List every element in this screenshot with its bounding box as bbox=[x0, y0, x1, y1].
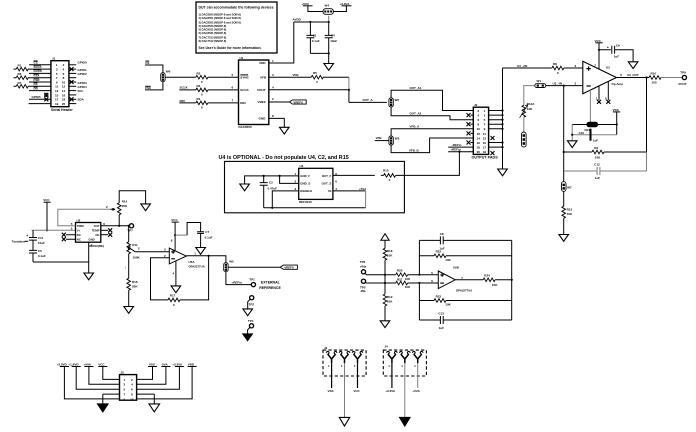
svg-text:R5: R5 bbox=[313, 71, 317, 75]
svg-text:Tantalum: Tantalum bbox=[12, 239, 25, 243]
resistor R23 bbox=[419, 300, 511, 302]
resistor R20 bbox=[396, 273, 408, 277]
svg-text:W3: W3 bbox=[395, 136, 400, 140]
svg-text:R7: R7 bbox=[18, 81, 22, 85]
wire VOUT bbox=[269, 90, 387, 103]
svg-text:1uF: 1uF bbox=[593, 138, 599, 142]
ground bbox=[243, 309, 253, 316]
svg-text:VCC: VCC bbox=[171, 218, 178, 222]
wire GPIO0 pin2 bbox=[69, 64, 76, 66]
wire W6 to R2 bbox=[165, 76, 196, 78]
wire OUT_A2 bbox=[391, 107, 473, 120]
svg-text:SCLK: SCLK bbox=[180, 86, 189, 90]
svg-text:C9: C9 bbox=[616, 44, 620, 48]
svg-text:J1: J1 bbox=[52, 57, 56, 61]
svg-text:0.1uF: 0.1uF bbox=[38, 254, 46, 258]
wire AVDD rail bbox=[294, 21, 329, 23]
svg-text:10K: 10K bbox=[567, 212, 573, 216]
svg-text:VSS: VSS bbox=[149, 362, 155, 366]
test point TP2 bbox=[250, 296, 254, 300]
svg-text:OUT_A2: OUT_A2 bbox=[410, 112, 422, 116]
svg-text:+INa: +INa bbox=[360, 264, 367, 268]
svg-text:R15: R15 bbox=[383, 169, 389, 173]
svg-text:U4: U4 bbox=[300, 164, 304, 168]
wire -IN feedback vertical bbox=[563, 86, 565, 171]
svg-text:VFB_A: VFB_A bbox=[410, 125, 421, 129]
svg-text:U5B: U5B bbox=[453, 265, 460, 269]
svg-text:18: 18 bbox=[477, 146, 481, 150]
wire GPIO2 pin6 bbox=[69, 72, 76, 74]
svg-text:VFB: VFB bbox=[376, 136, 383, 140]
wire DR pin13 bbox=[29, 90, 51, 92]
connector J2 bbox=[472, 103, 499, 160]
svg-text:GND: GND bbox=[88, 238, 94, 242]
svg-text:20K: 20K bbox=[122, 204, 128, 208]
svg-text:REF3240: REF3240 bbox=[299, 200, 312, 204]
wire GPIO3 pin10 bbox=[69, 81, 76, 83]
wire +1.8VD to J5 pin5 bbox=[76, 367, 119, 390]
svg-text:W1: W1 bbox=[537, 79, 542, 83]
wire TP4 to ground bbox=[248, 327, 251, 334]
wire VFB_A bbox=[391, 129, 473, 136]
wire U4 OUT_F to R15 bbox=[333, 174, 375, 176]
svg-text:VFB: VFB bbox=[260, 75, 267, 79]
svg-text:13: 13 bbox=[483, 136, 487, 140]
svg-text:C1: C1 bbox=[313, 34, 317, 38]
svg-text:R18: R18 bbox=[387, 249, 393, 253]
wire U5A output bbox=[186, 256, 226, 263]
svg-text:-INa: -INa bbox=[360, 289, 366, 293]
resistor R5 bbox=[311, 75, 323, 79]
no-connect U3 pin5 bbox=[607, 82, 609, 101]
ground bbox=[559, 235, 569, 242]
wire SCL pin14 bbox=[69, 90, 76, 92]
svg-text:R1: R1 bbox=[18, 64, 22, 68]
svg-text:-REFin: -REFin bbox=[452, 143, 462, 147]
svg-text:TP4: TP4 bbox=[248, 319, 254, 323]
svg-text:DAC8550: DAC8550 bbox=[239, 125, 253, 129]
resistor R19 bbox=[384, 283, 386, 294]
svg-text:VCC: VCC bbox=[43, 198, 50, 202]
wire VFB_B bbox=[391, 138, 473, 153]
wire U2 OUT bbox=[101, 225, 130, 227]
wire caps to ground bbox=[310, 53, 328, 63]
wire to W7 bbox=[563, 171, 565, 182]
svg-text:SYNC: SYNC bbox=[240, 75, 249, 79]
capacitor C11 bbox=[29, 230, 37, 250]
svg-text:SDA: SDA bbox=[78, 98, 85, 102]
svg-text:R10: R10 bbox=[651, 71, 657, 75]
op-amp U5B bbox=[438, 265, 472, 292]
resistor R6 bbox=[16, 76, 28, 80]
wire R19 to ground bbox=[384, 306, 386, 321]
svg-text:R17: R17 bbox=[170, 294, 176, 298]
wire jack1 VSS bbox=[331, 363, 333, 388]
no-connect pin12 bbox=[467, 131, 471, 135]
svg-text:3) DAC8552 (MSOP-8 and SON-8): 3) DAC8552 (MSOP-8 and SON-8) bbox=[199, 21, 241, 25]
no-connect pin15 bbox=[45, 93, 48, 96]
svg-text:10K: 10K bbox=[405, 277, 411, 281]
svg-text:15: 15 bbox=[55, 93, 59, 97]
svg-text:16: 16 bbox=[62, 93, 66, 97]
svg-text:+5VA: +5VA bbox=[302, 2, 310, 6]
svg-text:C8: C8 bbox=[440, 232, 444, 236]
svg-text:J2: J2 bbox=[474, 103, 478, 107]
resistor R8 bbox=[552, 66, 564, 70]
svg-text:-5VA: -5VA bbox=[161, 362, 168, 366]
capacitor C13 bbox=[419, 316, 511, 324]
svg-text:19: 19 bbox=[55, 102, 59, 106]
svg-text:+: + bbox=[26, 234, 28, 238]
wire J2 odd pins to ground bus bbox=[489, 111, 503, 148]
svg-text:10K: 10K bbox=[387, 254, 393, 258]
ground bbox=[280, 127, 290, 134]
svg-text:W7: W7 bbox=[567, 185, 572, 189]
jack 1 bbox=[387, 351, 397, 363]
ground earth bbox=[243, 334, 253, 341]
svg-text:ENABLE: ENABLE bbox=[300, 189, 312, 193]
no-connect pin19 bbox=[491, 151, 495, 155]
svg-text:VFB: VFB bbox=[293, 73, 300, 77]
svg-text:R2: R2 bbox=[197, 72, 201, 76]
capacitor C9 bbox=[599, 46, 633, 62]
svg-text:TRIM: TRIM bbox=[77, 224, 85, 228]
wire jack2 to ground bbox=[404, 363, 406, 417]
connector J1 bbox=[51, 57, 73, 112]
svg-text:U5A: U5A bbox=[189, 260, 196, 264]
jumper W4 bbox=[323, 9, 333, 15]
svg-text:7) DAC7513 (MSOP-8): 7) DAC7513 (MSOP-8) bbox=[199, 36, 227, 40]
svg-text:AVDD: AVDD bbox=[293, 18, 302, 22]
ground bbox=[567, 141, 577, 148]
wire U4 pin3 enable to bottom rail bbox=[272, 191, 298, 208]
svg-text:GND_S: GND_S bbox=[300, 182, 310, 186]
ground bbox=[339, 417, 349, 426]
ground bbox=[240, 184, 250, 191]
svg-text:VOUT: VOUT bbox=[678, 82, 687, 86]
svg-text:R20: R20 bbox=[397, 269, 403, 273]
wire CS to W6 bbox=[145, 65, 163, 73]
svg-text:OUT: OUT bbox=[94, 224, 100, 228]
svg-text:J3: J3 bbox=[324, 346, 328, 350]
wire SDA pin18 bbox=[69, 98, 76, 100]
resistor R24 bbox=[483, 278, 495, 282]
jumper W7A bbox=[522, 132, 527, 147]
power arrow bbox=[381, 234, 389, 249]
net flag VREFA bbox=[280, 265, 297, 269]
ground bbox=[141, 204, 151, 211]
wire U5B output bbox=[455, 279, 483, 281]
wire TP6 to R20 bbox=[365, 273, 396, 275]
svg-text:U3_+IN: U3_+IN bbox=[517, 64, 527, 68]
capacitor C7 bbox=[175, 234, 187, 236]
wire U2 TRIM loop to R14 wiper bbox=[58, 209, 111, 226]
svg-text:VDD: VDD bbox=[259, 61, 266, 65]
svg-text:VCC: VCC bbox=[353, 389, 360, 393]
svg-text:+3.3VA: +3.3VA bbox=[340, 2, 351, 6]
svg-text:+5VA: +5VA bbox=[412, 389, 420, 393]
jack 2 bbox=[339, 351, 349, 363]
jumper W1 bbox=[535, 84, 546, 88]
wire U3 pin4 bbox=[589, 90, 591, 125]
svg-text:C11: C11 bbox=[38, 236, 44, 240]
wire R15 to +REFin J2 pin bbox=[399, 152, 460, 176]
test point TP5 VOUT bbox=[682, 75, 686, 79]
svg-text:6) DAC8531 (MSOP-8): 6) DAC8531 (MSOP-8) bbox=[199, 31, 227, 35]
svg-text:R13: R13 bbox=[567, 207, 573, 211]
svg-text:16: 16 bbox=[477, 141, 481, 145]
svg-text:100: 100 bbox=[652, 81, 657, 85]
no-connect U2 TEMP bbox=[101, 229, 108, 231]
test point TP6 bbox=[361, 270, 365, 274]
jumper W3 bbox=[389, 136, 393, 145]
wire U4 pin2 to rail bbox=[280, 176, 299, 184]
wire bottom rail to U2 GND bbox=[33, 261, 89, 263]
svg-text:VREFA: VREFA bbox=[284, 266, 295, 270]
jack 2 bbox=[400, 351, 410, 363]
svg-text:11: 11 bbox=[483, 132, 487, 136]
node VFB stub bbox=[375, 140, 389, 142]
resistor R22 bbox=[419, 255, 511, 257]
wire pin8 bbox=[69, 77, 76, 79]
wire pin16 bbox=[69, 94, 76, 96]
svg-text:5) DAC8531 (MSOP-8): 5) DAC8531 (MSOP-8) bbox=[199, 28, 227, 32]
no-connect U2 left NC pins bbox=[66, 235, 76, 240]
resistor R7 bbox=[16, 85, 28, 89]
wire TP2 to ground bbox=[248, 299, 251, 309]
svg-text:10uF: 10uF bbox=[38, 241, 45, 245]
wire pin20 bbox=[69, 103, 76, 105]
ground bbox=[98, 404, 109, 412]
no-connect pin4 bbox=[467, 113, 471, 117]
svg-text:VCC: VCC bbox=[595, 39, 602, 43]
no-connect pin8 bbox=[467, 122, 471, 126]
svg-text:NC: NC bbox=[77, 233, 81, 237]
wire GPIO5 pin17 bbox=[29, 98, 51, 100]
svg-text:10K: 10K bbox=[492, 283, 498, 287]
capacitor C2 bbox=[260, 176, 268, 208]
svg-text:C7: C7 bbox=[205, 230, 209, 234]
svg-text:VDD: VDD bbox=[188, 362, 195, 366]
op-amp U3 bbox=[583, 61, 623, 93]
wire jack3 +5VA bbox=[417, 363, 419, 388]
resistor R18 bbox=[383, 248, 387, 260]
resistor R9 bbox=[564, 151, 647, 153]
wire VCC to J5 pin1 bbox=[103, 367, 120, 380]
wire jack1 +3.3VA bbox=[391, 363, 393, 388]
potentiometer R14 bbox=[117, 203, 121, 215]
svg-text:DIN: DIN bbox=[240, 101, 246, 105]
wire U2 GND pin to ground bbox=[88, 242, 90, 273]
svg-text:OUT_F: OUT_F bbox=[322, 174, 332, 178]
wire W4 to AVDD rail bbox=[328, 16, 330, 22]
wire W1 to pot bbox=[524, 86, 535, 106]
wire GND pin to ground bbox=[269, 118, 285, 127]
svg-text:VREFA: VREFA bbox=[293, 100, 304, 104]
ground bbox=[628, 62, 638, 69]
wire to ground bbox=[571, 125, 573, 141]
wire jack2 to ground bbox=[344, 363, 346, 417]
svg-text:Op Amp: Op Amp bbox=[612, 82, 624, 86]
svg-text:R3: R3 bbox=[197, 84, 201, 88]
svg-text:OPA2277UA: OPA2277UA bbox=[189, 265, 205, 269]
connector J5 bbox=[120, 371, 137, 402]
svg-text:10: 10 bbox=[477, 127, 481, 131]
DAC U1 bbox=[232, 56, 275, 129]
svg-text:VSS: VSS bbox=[613, 108, 619, 112]
svg-text:OUT_A1: OUT_A1 bbox=[410, 86, 422, 90]
resistor R21 bbox=[396, 281, 408, 285]
svg-text:1uF: 1uF bbox=[439, 326, 445, 330]
svg-text:10K: 10K bbox=[595, 155, 601, 159]
svg-text:DUT can accommodate the follow: DUT can accommodate the following device… bbox=[199, 6, 274, 10]
wire FSX to W6 bbox=[145, 82, 163, 90]
ground bus wire bbox=[502, 68, 504, 169]
wire R10 to TP1 bbox=[661, 77, 683, 79]
svg-text:C12: C12 bbox=[594, 163, 600, 167]
svg-text:GPIO5: GPIO5 bbox=[32, 95, 42, 99]
net flag VREFA bbox=[269, 101, 290, 103]
svg-text:TP7: TP7 bbox=[127, 228, 133, 232]
svg-text:NC: NC bbox=[95, 233, 99, 237]
svg-text:+: + bbox=[607, 45, 609, 49]
wire OUT_A1 bbox=[391, 90, 473, 110]
no-connect pin13 bbox=[491, 136, 495, 140]
wire +5VA to J5 pin3 bbox=[89, 367, 120, 385]
wire R11 to R16 bbox=[128, 254, 130, 278]
svg-text:1) DAC8550 (MSOP-8 and SON-8): 1) DAC8550 (MSOP-8 and SON-8) bbox=[199, 13, 241, 17]
wire R21 to U5B - bbox=[408, 282, 439, 284]
wire GPIO4 pin12 bbox=[69, 85, 76, 87]
svg-text:0.1uF: 0.1uF bbox=[312, 39, 320, 43]
wire +3.3VA to W4 bbox=[333, 6, 346, 12]
svg-text:U3_-IN: U3_-IN bbox=[553, 81, 563, 85]
jack 3 bbox=[352, 351, 362, 363]
svg-text:17: 17 bbox=[483, 146, 487, 150]
svg-text:8) DAC7512 (MSOP-8): 8) DAC7512 (MSOP-8) bbox=[199, 39, 227, 43]
wire R18 to input rows bbox=[384, 260, 386, 283]
wire +3.3VD to J5 pin9 bbox=[64, 367, 119, 399]
wire R16 to ground bbox=[128, 290, 130, 306]
resistor R3 bbox=[196, 88, 208, 92]
wire jack3 VCC bbox=[357, 363, 359, 388]
IC U4 bbox=[295, 164, 338, 204]
svg-text:TP2: TP2 bbox=[249, 302, 255, 306]
test point TP7 bbox=[129, 224, 133, 228]
wire +5VA to W4 bbox=[308, 6, 323, 12]
jack 3 bbox=[412, 351, 422, 363]
svg-text:R23: R23 bbox=[436, 294, 442, 298]
svg-text:OUT_S: OUT_S bbox=[322, 182, 332, 186]
capacitor C10 bbox=[572, 134, 617, 136]
svg-text:20: 20 bbox=[62, 102, 66, 106]
wire R14 bottom to OUT node bbox=[118, 215, 120, 226]
svg-text:VOUT: VOUT bbox=[257, 88, 266, 92]
ground bbox=[171, 286, 181, 293]
svg-text:10K: 10K bbox=[445, 303, 451, 307]
wire W5 to TP1 bbox=[226, 272, 252, 285]
svg-text:OUT_A: OUT_A bbox=[363, 98, 374, 102]
no-connect U2 NC right bbox=[101, 234, 108, 236]
svg-text:U2: U2 bbox=[77, 218, 81, 222]
capacitor C1 bbox=[306, 22, 314, 53]
wire GPIO1 pin4 bbox=[69, 68, 76, 70]
wire gnd rail to U4 pin1 bbox=[245, 176, 299, 184]
wire TP5 to R21 bbox=[365, 282, 396, 285]
svg-text:R21: R21 bbox=[397, 277, 403, 281]
IC U2 bbox=[71, 218, 106, 248]
wire U5A -IN feedback bbox=[151, 258, 170, 300]
wire W7 to R13 bbox=[563, 191, 565, 206]
resistor R17 bbox=[168, 298, 180, 302]
wire VFB net bbox=[269, 76, 312, 78]
svg-text:R14: R14 bbox=[122, 200, 128, 204]
svg-text:10: 10 bbox=[130, 397, 134, 401]
svg-text:100K: 100K bbox=[133, 256, 141, 260]
svg-text:DIN: DIN bbox=[180, 99, 185, 103]
svg-text:U1: U1 bbox=[240, 56, 244, 60]
wire OUT node down to R11 bbox=[128, 226, 130, 242]
wire R13 to ground bbox=[563, 218, 565, 234]
svg-text:20: 20 bbox=[477, 150, 481, 154]
svg-text:20K: 20K bbox=[132, 284, 138, 288]
wire FSR pin9 bbox=[29, 81, 51, 83]
jumper W7 bbox=[561, 182, 566, 192]
svg-text:0.1uF: 0.1uF bbox=[205, 235, 213, 239]
svg-text:15: 15 bbox=[483, 141, 487, 145]
svg-text:+1.8VD: +1.8VD bbox=[68, 362, 79, 366]
svg-text:C5: C5 bbox=[38, 249, 42, 253]
wire U3 output bbox=[616, 77, 649, 79]
svg-text:V+: V+ bbox=[77, 228, 81, 232]
wire ground to J5 pin8 bbox=[137, 394, 155, 404]
test point TP1 external reference bbox=[251, 283, 255, 287]
svg-text:OPA2277UA: OPA2277UA bbox=[456, 288, 472, 292]
wire -5VA to J5 pin4 bbox=[137, 367, 166, 385]
wire R5 to VOUT node bbox=[323, 76, 349, 78]
wire output feedback vertical bbox=[646, 78, 648, 153]
svg-text:J5: J5 bbox=[121, 371, 125, 375]
svg-text:W5: W5 bbox=[229, 259, 234, 263]
wire VSS to J5 pin2 bbox=[137, 367, 153, 380]
resistor R2 bbox=[196, 75, 208, 79]
wire V+ rail bbox=[32, 229, 76, 231]
ground bbox=[84, 273, 94, 280]
svg-text:R24: R24 bbox=[484, 274, 490, 278]
svg-text:GPIO2: GPIO2 bbox=[78, 72, 88, 76]
resistor R16 bbox=[127, 278, 131, 290]
svg-text:1uF: 1uF bbox=[595, 176, 601, 180]
svg-text:W6: W6 bbox=[166, 70, 171, 74]
svg-text:C10: C10 bbox=[579, 131, 585, 135]
svg-text:19: 19 bbox=[483, 150, 487, 154]
wire +3.3VA to J5 pin6 bbox=[137, 367, 180, 390]
svg-text:VSS: VSS bbox=[328, 389, 334, 393]
svg-text:+REFin: +REFin bbox=[450, 148, 461, 152]
svg-text:J4: J4 bbox=[384, 345, 388, 349]
wire VDD to J5 pin10 bbox=[137, 367, 193, 399]
svg-text:VCC: VCC bbox=[98, 362, 105, 366]
svg-text:0.47uF: 0.47uF bbox=[268, 187, 278, 191]
svg-text:TEMP: TEMP bbox=[92, 228, 100, 232]
svg-text:+5VA: +5VA bbox=[84, 362, 92, 366]
svg-text:+3.3VA: +3.3VA bbox=[172, 362, 183, 366]
capacitor C4 bbox=[325, 22, 333, 53]
svg-text:See User's Guide for more info: See User's Guide for more information. bbox=[199, 46, 262, 50]
svg-text:2) DAC8551 (MSOP-8 and SON-8): 2) DAC8551 (MSOP-8 and SON-8) bbox=[199, 16, 241, 20]
test point TP5 bbox=[361, 279, 365, 283]
wire R14 top to ground bbox=[119, 191, 145, 204]
